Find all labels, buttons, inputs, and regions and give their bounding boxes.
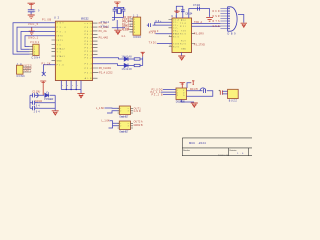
net labels at U6 left pins (red): [151, 89, 163, 96]
svg-text:P2.3: P2.3: [85, 64, 93, 66]
svg-text:BUZZ: BUZZ: [229, 101, 238, 103]
svg-text:TXD_A: TXD_A: [194, 21, 202, 24]
wire (XTAL1 net, lower): [112, 19, 115, 21]
resistor R1: [134, 58, 140, 60]
svg-text:-2024: -2024: [198, 141, 207, 145]
svg-text:L_1.6K: L_1.6K: [102, 119, 110, 122]
svg-text:1N4148: 1N4148: [122, 57, 133, 59]
svg-text:U2: U2: [54, 17, 60, 20]
svg-text:R2I: R2I: [181, 41, 186, 43]
IC U3 (MAX232 body): [172, 18, 192, 53]
svg-text:C7 104: C7 104: [193, 5, 201, 7]
svg-text:INT1: INT1: [57, 40, 64, 42]
svg-text:VCC1: VCC1: [30, 41, 40, 44]
svg-text:Number: Number: [183, 149, 190, 152]
power VCC P5 (on U3 top loop): [174, 10, 179, 13]
svg-text:P3_1TXD: P3_1TXD: [194, 43, 205, 46]
svg-text:1N4148: 1N4148: [122, 69, 133, 71]
capacitor C1: [28, 10, 35, 15]
net labels at J5 pins (red): [213, 11, 220, 28]
svg-text:XTAL1: XTAL1: [101, 25, 110, 28]
svg-text:OUT 1: OUT 1: [25, 70, 33, 72]
svg-text:P1.0: P1.0: [57, 65, 65, 67]
svg-text:P1.0B: P1.0B: [42, 19, 51, 22]
svg-text:DB9: DB9: [228, 32, 237, 35]
node (junction text) pin numbers above bottom rail: [62, 85, 78, 87]
power VCC P2 (crystal block top): [114, 2, 120, 7]
svg-text:R1O: R1O: [173, 37, 180, 39]
wire (U2 pin11 with net stub): [44, 65, 56, 74]
svg-text:G1: G1: [122, 35, 127, 38]
svg-text:R1O: R1O: [180, 34, 187, 36]
title block frame: [182, 138, 252, 156]
wire (into U4 left pins): [105, 108, 120, 113]
svg-text:RST: RST: [57, 23, 65, 25]
svg-text:P2.0: P2.0: [85, 51, 93, 53]
wire (U6 top right to VCC net): [187, 83, 191, 88]
svg-text:2024-5-20: 2024-5-20: [218, 155, 229, 156]
svg-text:T1O: T1O: [180, 23, 187, 25]
svg-text:RTS: RTS: [213, 21, 220, 23]
LED D3: [45, 91, 49, 97]
svg-text:2: 2: [120, 126, 121, 128]
svg-text:P2_2 B: P2_2 B: [152, 95, 163, 97]
svg-text:DS18B20: DS18B20: [176, 102, 186, 104]
svg-text:CON6: CON6: [133, 36, 141, 39]
svg-text:10: 10: [169, 45, 171, 47]
svg-text:C6+: C6+: [155, 21, 162, 23]
capacitor C3 (right of crystal Y1): [122, 7, 126, 17]
wire (U2 pin to diode rail 1): [93, 58, 121, 59]
power VCC P3 (diode rails): [141, 52, 145, 56]
capacitor C9 (series on U6 loop): [200, 88, 206, 93]
svg-text:P2.2: P2.2: [85, 58, 93, 60]
connector J3 (3-pin header): [17, 65, 32, 74]
svg-text:P2.4: P2.4: [85, 68, 93, 70]
svg-text:GND: GND: [122, 29, 129, 31]
IC U2 left pin stubs: [52, 40, 56, 60]
net labels right of U5 (red): [134, 120, 143, 127]
svg-text:2: 2: [120, 111, 121, 113]
svg-text:L_1.6K: L_1.6K: [96, 107, 104, 110]
svg-text:C2 104: C2 104: [35, 100, 43, 103]
resistor R2: [134, 64, 140, 66]
connector J5 pin stubs: [220, 9, 227, 29]
svg-text:3: 3: [72, 85, 73, 87]
svg-text:P0.0: P0.0: [85, 23, 93, 25]
capacitor C4: [33, 93, 39, 98]
svg-text:6: 6: [134, 32, 135, 34]
IC U3 interior pin names: [173, 19, 187, 50]
svg-text:INT0: INT0: [57, 36, 64, 38]
svg-text:3: 3: [128, 111, 129, 113]
wire (crystal top rail): [114, 6, 125, 8]
connector J5 pin pads (blue): [228, 8, 230, 30]
svg-text:T2IN: T2IN: [173, 43, 180, 45]
svg-text:16: 16: [178, 19, 182, 21]
wire (U3 top loop with V+ cap): [176, 6, 183, 18]
svg-text:GND: GND: [181, 49, 187, 51]
wire (U6 left pins): [161, 90, 176, 95]
buzzer LS1: [228, 89, 239, 98]
wire (U3 R1IN to DB9): [192, 25, 221, 27]
svg-text:P2.5: P2.5: [85, 72, 93, 74]
svg-text:P0.1: P0.1: [85, 27, 93, 29]
capacitor C10 (polarized, buzzer drive): [220, 90, 222, 94]
svg-text:P0.5: P0.5: [85, 41, 93, 43]
svg-text:GND_1: GND_1: [28, 36, 39, 39]
power VCC P4 (LED filter circuit): [40, 81, 46, 95]
capacitor C10 plus mark: [219, 90, 220, 91]
ground (below C1): [28, 15, 35, 19]
svg-text:104: 104: [34, 112, 41, 114]
net labels at J2 pins (red): [122, 19, 130, 31]
svg-text:GND2 B: GND2 B: [134, 125, 143, 127]
svg-text:XTAL2: XTAL2: [57, 47, 66, 50]
svg-text:R2O: R2O: [180, 43, 187, 45]
svg-text:C2-: C2-: [173, 28, 178, 30]
svg-text:POWER: POWER: [44, 99, 53, 101]
wire (U3 T1OUT to DB9): [192, 23, 221, 25]
svg-text:XTAL1: XTAL1: [57, 55, 66, 58]
ground (crystal block): [114, 30, 121, 34]
net labels at J3 pins (red): [25, 65, 33, 72]
diode D2 (1N4148): [124, 64, 128, 68]
svg-text:C1 10U: C1 10U: [32, 90, 40, 93]
IC U2 interior pin names (right column): [85, 23, 93, 80]
optocoupler U5: [118, 121, 134, 130]
svg-text:Grade 817: Grade 817: [119, 130, 129, 133]
svg-text:RXD: RXD: [149, 31, 156, 34]
svg-text:GND: GND: [134, 111, 141, 113]
svg-text:3: 3: [177, 95, 178, 97]
wire (IC pin1 to J1 pin4, nested bundle): [13, 23, 55, 54]
svg-text:P0.2: P0.2: [85, 31, 93, 33]
wire (U6 right pin with pullup loop): [187, 91, 213, 96]
wire (U3 C1+ loop): [153, 22, 172, 25]
wire (filter rail 2): [30, 102, 55, 104]
svg-text:Revision: Revision: [229, 150, 237, 152]
sensor U6 (DS18B20): [176, 88, 187, 100]
wire (U3 bottom to ground): [181, 53, 183, 56]
IC U2 (MCU body): [55, 21, 92, 80]
wire (XTAL2 net, upper): [112, 17, 124, 19]
svg-text:P0_2A: P0_2A: [99, 30, 107, 33]
wire (J5 shield to ground): [238, 15, 244, 23]
ground (below U2 bottom rail): [77, 94, 84, 98]
svg-text:VCC_5: VCC_5: [28, 23, 39, 26]
pin number marks (U3 left stubs): [169, 35, 171, 47]
connector J2 (6-pin header): [130, 17, 141, 35]
svg-text:R4 4.7K: R4 4.7K: [190, 89, 198, 91]
wire (into U5 left pins): [109, 121, 120, 128]
svg-text:P2_1 A: P2_1 A: [151, 91, 161, 94]
wire (IC pin4 to J1 pin1): [25, 36, 55, 47]
svg-text:P2.1: P2.1: [85, 55, 93, 57]
power VCC P1 (top-left decoupling chain): [28, 3, 36, 9]
svg-text:P0.4: P0.4: [85, 38, 93, 40]
svg-text:1: 1: [77, 85, 78, 87]
svg-text:P0.3: P0.3: [85, 34, 93, 36]
wire (filter left bus): [29, 95, 31, 108]
svg-text:89C52: 89C52: [81, 18, 89, 21]
svg-text:C1-: C1-: [173, 22, 178, 24]
svg-text:T2O: T2O: [181, 31, 187, 33]
wire (filter right bus): [54, 95, 56, 110]
svg-text:CON4: CON4: [32, 56, 41, 59]
capacitor C6: [33, 106, 39, 110]
svg-text:2: 2: [62, 85, 63, 87]
wire (IC pin3 to J1 pin2): [21, 32, 55, 50]
svg-text:P1_2K: P1_2K: [42, 62, 51, 65]
svg-text:R1I: R1I: [180, 26, 186, 28]
svg-text:DSR: DSR: [213, 16, 220, 18]
svg-text:P3_0RX: P3_0RX: [194, 33, 204, 36]
wire (IC pin2 to J1 pin3): [17, 27, 55, 52]
node junctions on bottom rail: [66, 89, 77, 90]
svg-text:MCU: MCU: [189, 141, 195, 145]
wire (filter rail 3): [30, 107, 55, 109]
IC U2 interior pin names (left column): [57, 23, 67, 67]
svg-text:GND: GND: [213, 26, 220, 28]
wire (filter rail 1): [30, 94, 55, 96]
svg-text:VS-: VS-: [173, 33, 178, 35]
svg-text:0: 0: [67, 85, 68, 87]
capacitor C7 (on U3 top loop): [181, 10, 185, 12]
capacitor C2 (left of crystal Y1): [113, 7, 117, 20]
wire (diode rail vertical join): [121, 57, 143, 66]
ground (U3 bottom): [178, 56, 185, 60]
ground (filter circuit): [52, 111, 59, 115]
wire (C10 to buzzer LS1): [222, 91, 227, 94]
svg-text:R2O: R2O: [173, 46, 180, 48]
ground (below U6): [191, 103, 198, 107]
capacitor C5: [33, 101, 39, 105]
svg-text:GND: GND: [57, 60, 63, 62]
IC U3 right lower stubs: [192, 34, 196, 44]
ground (tap on wire bundle): [29, 27, 35, 34]
IC U2 right pin stubs: [93, 23, 99, 78]
svg-text:8: 8: [169, 35, 170, 37]
net labels at U2 right pins (red): [99, 22, 114, 74]
svg-text:OUT1: OUT1: [134, 108, 142, 110]
wire (U3 second top loop): [189, 9, 210, 18]
power VCC P7 (right of U6): [191, 81, 195, 85]
diode D1 (1N4148): [124, 57, 128, 61]
svg-text:P0_4AD: P0_4AD: [99, 37, 109, 40]
svg-text:XTAL2: XTAL2: [101, 21, 110, 24]
wire (U6 bottom to ground): [181, 100, 194, 103]
connector J5 (DB9 body): [228, 7, 238, 31]
ground (right of U3 top): [206, 18, 213, 22]
capacitor C11 (charge pump, on U3 C1- wire): [147, 23, 151, 27]
svg-text:OUT2 A: OUT2 A: [134, 120, 143, 123]
wire (U2 bottom pins to common rail): [61, 81, 81, 94]
svg-text:TXD1: TXD1: [149, 41, 158, 44]
svg-text:DCD: DCD: [213, 11, 220, 13]
svg-text:P2_4 LCD2: P2_4 LCD2: [99, 71, 113, 74]
svg-text:P0.7: P0.7: [85, 48, 93, 50]
net labels right of U4 (red): [134, 108, 142, 113]
IC U3 left pin stubs: [169, 20, 173, 47]
svg-text:P2_3 LCD1: P2_3 LCD1: [99, 67, 112, 70]
crystal Y1: [117, 9, 122, 14]
wire (RXD to U3): [156, 33, 173, 35]
wire (U2 pin to diode rail 2): [93, 64, 121, 66]
no-connect cross (blue): [42, 72, 46, 76]
svg-text:ALE: ALE: [85, 77, 93, 80]
capacitor C8 (on U3 second loop): [198, 7, 200, 11]
power VCC P6 (above U6): [180, 83, 186, 88]
wire (crystal bottom rail): [112, 20, 125, 30]
ground (right of J5): [241, 23, 247, 27]
svg-text:CON3: CON3: [17, 75, 26, 78]
svg-text:3: 3: [128, 126, 129, 128]
svg-text:P0.6: P0.6: [85, 44, 93, 46]
optocoupler U4: [118, 106, 134, 115]
connector J1 (4-pin header): [30, 44, 39, 56]
wire (TXD to U3): [157, 43, 172, 45]
svg-text:Grade 817: Grade 817: [119, 115, 129, 118]
